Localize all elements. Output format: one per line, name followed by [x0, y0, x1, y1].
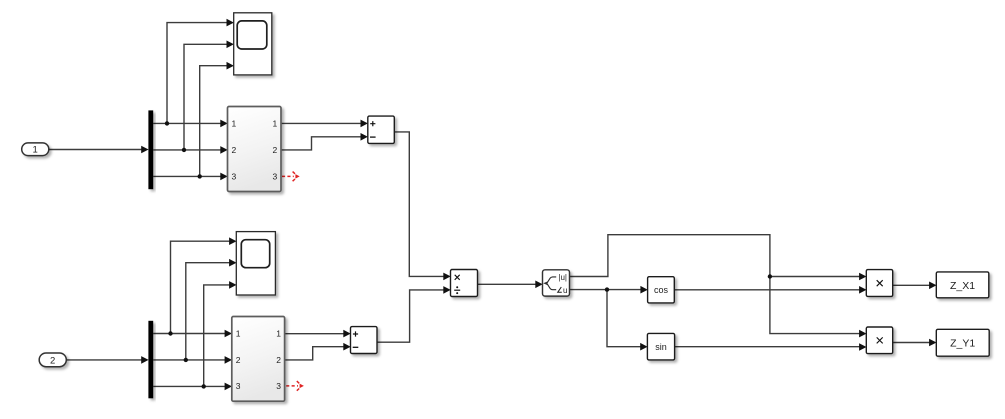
cos block T1 [648, 277, 675, 303]
svg-text:1: 1 [232, 118, 237, 128]
wire sin T2 out to product P2 in2 [675, 343, 867, 351]
junction dot D2 out2 [184, 358, 188, 362]
svg-text:sin: sin [655, 342, 667, 352]
wire demux D2 out3 to subsystem S2 in3 [153, 383, 232, 391]
svg-text:Z_Y1: Z_Y1 [950, 338, 975, 350]
demux D1 [148, 110, 153, 189]
wire divide DV1 out to complex-to-magnitude-angle U1 in [478, 281, 543, 289]
svg-text:3: 3 [276, 381, 281, 391]
svg-text:2: 2 [50, 355, 55, 366]
svg-text:2: 2 [232, 145, 237, 155]
junction dot D2 out3 [202, 384, 206, 388]
wire inport2 to demux D2 [66, 356, 148, 364]
complex to magnitude-angle U1 [543, 270, 570, 296]
wire subsystem S2 out2 to sum A2 minus input [285, 343, 351, 360]
wire branch demux D1 out2 to scope SC1 in2 [184, 41, 234, 150]
product P1 [866, 270, 892, 297]
wire demux D1 out3 to subsystem S1 in3 [153, 173, 228, 181]
wire subsystem S1 out1 to sum A1 plus input [281, 120, 368, 128]
wire branch magnitude to product P1 in1 [770, 273, 867, 281]
wire sum A2 out to divide DV1 in2 [377, 286, 451, 342]
wire branch demux D2 out2 to scope SC2 in2 [186, 259, 237, 360]
wire branch demux D1 out1 to scope SC1 in1 [167, 19, 234, 124]
outport Z_X1 [936, 272, 989, 298]
svg-text:3: 3 [272, 171, 277, 181]
svg-text:1: 1 [236, 329, 241, 339]
unconnected signal red dashed arrow subsystem S2 out3 [286, 381, 304, 391]
wire demux D1 out1 to subsystem S1 in1 [153, 120, 228, 128]
sin block T2 [647, 333, 674, 360]
svg-text:2: 2 [272, 145, 277, 155]
wire branch demux D1 out3 to scope SC1 in3 [200, 62, 234, 177]
product P2 [866, 327, 892, 354]
inport 1 [22, 143, 49, 156]
scope SC2 [236, 232, 275, 295]
wire demux D1 out2 to subsystem S1 in2 [153, 146, 228, 154]
wire cos T1 out to product P1 in2 [674, 286, 866, 294]
svg-text:1: 1 [276, 329, 281, 339]
junction dot D1 out2 [182, 148, 186, 152]
sum A2 [351, 327, 378, 354]
subsystem S2 [232, 317, 285, 402]
wire branch angle to sin T2 in [607, 290, 648, 351]
wire U1 magnitude out over top to product P2 in1 [570, 235, 867, 338]
svg-text:2: 2 [236, 355, 241, 365]
wire branch demux D2 out3 to scope SC2 in3 [204, 281, 237, 386]
wire demux D2 out1 to subsystem S2 in1 [153, 330, 232, 338]
junction dot magnitude branch [768, 274, 772, 278]
svg-text:3: 3 [232, 171, 237, 181]
divide DV1 [451, 270, 478, 297]
junction dot D1 out1 [165, 121, 169, 125]
wire inport1 to demux D1 [49, 146, 149, 154]
unconnected signal red dashed arrow subsystem S1 out3 [282, 172, 300, 182]
svg-text:3: 3 [236, 381, 241, 391]
wire demux D2 out2 to subsystem S2 in2 [153, 356, 232, 364]
sum A1 [368, 116, 395, 143]
outport Z_Y1 [936, 329, 989, 356]
svg-text:u: u [563, 286, 567, 295]
junction dot D1 out3 [198, 174, 202, 178]
demux D2 [148, 321, 153, 399]
wire subsystem S1 out2 to sum A1 minus input [281, 133, 368, 150]
svg-text:1: 1 [272, 118, 277, 128]
wire product P1 out to outport Z_X1 [893, 282, 937, 290]
svg-text:cos: cos [654, 285, 669, 295]
wire branch demux D2 out1 to scope SC2 in1 [171, 237, 237, 333]
svg-text:Z_X1: Z_X1 [950, 280, 975, 292]
wire U1 angle out to cos T1 in [570, 286, 648, 294]
svg-text:|u|: |u| [558, 273, 567, 282]
wire subsystem S2 out1 to sum A2 plus input [285, 330, 351, 338]
wire sum A1 out to divide DV1 in1 [394, 132, 450, 280]
junction dot D2 out1 [168, 331, 172, 335]
svg-text:2: 2 [276, 355, 281, 365]
subsystem S1 [228, 107, 282, 192]
inport 2 [39, 353, 66, 367]
scope SC1 [234, 13, 272, 75]
svg-text:1: 1 [33, 145, 38, 156]
junction dot angle branch [605, 287, 609, 291]
wire product P2 out to outport Z_Y1 [893, 339, 937, 347]
